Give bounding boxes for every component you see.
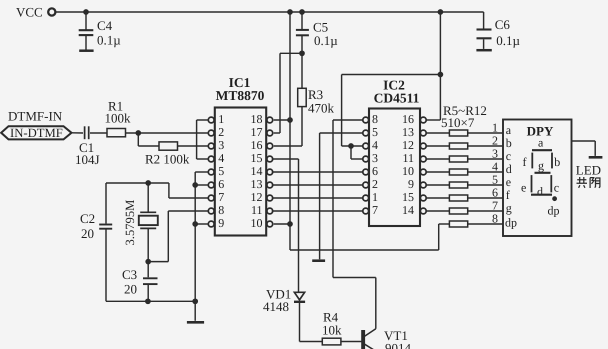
svg-text:VCC: VCC	[16, 5, 43, 20]
svg-text:d: d	[506, 162, 512, 176]
svg-text:1: 1	[218, 112, 224, 126]
svg-text:6: 6	[372, 164, 378, 178]
svg-text:f: f	[506, 188, 510, 202]
svg-text:C6: C6	[495, 17, 511, 32]
svg-text:2: 2	[372, 177, 378, 191]
svg-text:b: b	[554, 155, 560, 169]
svg-text:g: g	[538, 159, 544, 173]
svg-text:c: c	[554, 181, 559, 195]
svg-text:15: 15	[402, 190, 414, 204]
svg-text:8: 8	[492, 212, 498, 226]
svg-text:3: 3	[218, 138, 224, 152]
svg-text:20: 20	[81, 226, 94, 241]
svg-text:R2 100k: R2 100k	[145, 152, 190, 167]
svg-text:2: 2	[218, 125, 224, 139]
svg-text:DTMF-IN: DTMF-IN	[8, 109, 63, 124]
svg-text:8: 8	[372, 112, 378, 126]
svg-text:20: 20	[124, 282, 137, 297]
svg-text:3.5795M: 3.5795M	[123, 200, 137, 246]
svg-text:100k: 100k	[105, 111, 132, 126]
svg-text:12: 12	[251, 190, 263, 204]
svg-text:4: 4	[492, 160, 498, 174]
svg-text:d: d	[537, 184, 543, 198]
svg-text:470k: 470k	[308, 101, 335, 116]
svg-text:4: 4	[218, 151, 224, 165]
svg-text:14: 14	[251, 164, 263, 178]
svg-text:0.1µ: 0.1µ	[496, 33, 520, 48]
svg-text:c: c	[506, 149, 511, 163]
svg-text:16: 16	[251, 138, 263, 152]
svg-text:dp: dp	[505, 216, 517, 230]
svg-text:0.1µ: 0.1µ	[97, 33, 121, 48]
svg-text:510×7: 510×7	[441, 115, 475, 130]
svg-text:10: 10	[251, 216, 263, 230]
svg-text:9: 9	[218, 216, 224, 230]
svg-text:e: e	[521, 181, 526, 195]
svg-text:104J: 104J	[75, 152, 100, 167]
svg-text:b: b	[506, 136, 512, 150]
svg-text:g: g	[506, 201, 512, 215]
svg-text:MT8870: MT8870	[216, 88, 265, 103]
svg-text:9014: 9014	[385, 341, 412, 349]
svg-text:0.1µ: 0.1µ	[314, 33, 338, 48]
svg-text:C3: C3	[122, 267, 137, 282]
svg-text:LED: LED	[576, 163, 601, 178]
svg-text:2: 2	[492, 134, 498, 148]
svg-text:15: 15	[251, 151, 263, 165]
svg-text:12: 12	[402, 138, 414, 152]
svg-text:a: a	[506, 123, 512, 137]
svg-text:4: 4	[372, 138, 378, 152]
svg-text:1: 1	[372, 190, 378, 204]
svg-text:11: 11	[402, 151, 414, 165]
svg-text:9: 9	[408, 177, 414, 191]
svg-text:7: 7	[218, 190, 224, 204]
svg-text:3: 3	[372, 151, 378, 165]
svg-text:CD4511: CD4511	[374, 91, 420, 106]
svg-text:4148: 4148	[263, 299, 289, 314]
svg-text:18: 18	[251, 112, 263, 126]
svg-text:1: 1	[492, 121, 498, 135]
svg-text:11: 11	[251, 203, 263, 217]
svg-text:3: 3	[492, 147, 498, 161]
svg-text:16: 16	[402, 112, 414, 126]
svg-text:6: 6	[218, 177, 224, 191]
svg-text:7: 7	[372, 203, 378, 217]
svg-text:10k: 10k	[322, 323, 342, 338]
svg-text:17: 17	[251, 125, 263, 139]
svg-text:7: 7	[492, 199, 498, 213]
svg-text:dp: dp	[548, 204, 560, 218]
svg-text:5: 5	[372, 125, 378, 139]
svg-text:IN-DTMF: IN-DTMF	[10, 126, 63, 140]
svg-text:e: e	[506, 175, 511, 189]
svg-text:5: 5	[492, 173, 498, 187]
svg-text:10: 10	[402, 164, 414, 178]
svg-text:C4: C4	[97, 18, 113, 33]
svg-text:f: f	[523, 155, 527, 169]
svg-text:14: 14	[402, 203, 414, 217]
svg-text:13: 13	[251, 177, 263, 191]
svg-text:6: 6	[492, 186, 498, 200]
svg-text:8: 8	[218, 203, 224, 217]
svg-text:13: 13	[402, 125, 414, 139]
svg-text:C2: C2	[80, 211, 95, 226]
svg-text:a: a	[538, 136, 544, 150]
svg-text:5: 5	[218, 164, 224, 178]
